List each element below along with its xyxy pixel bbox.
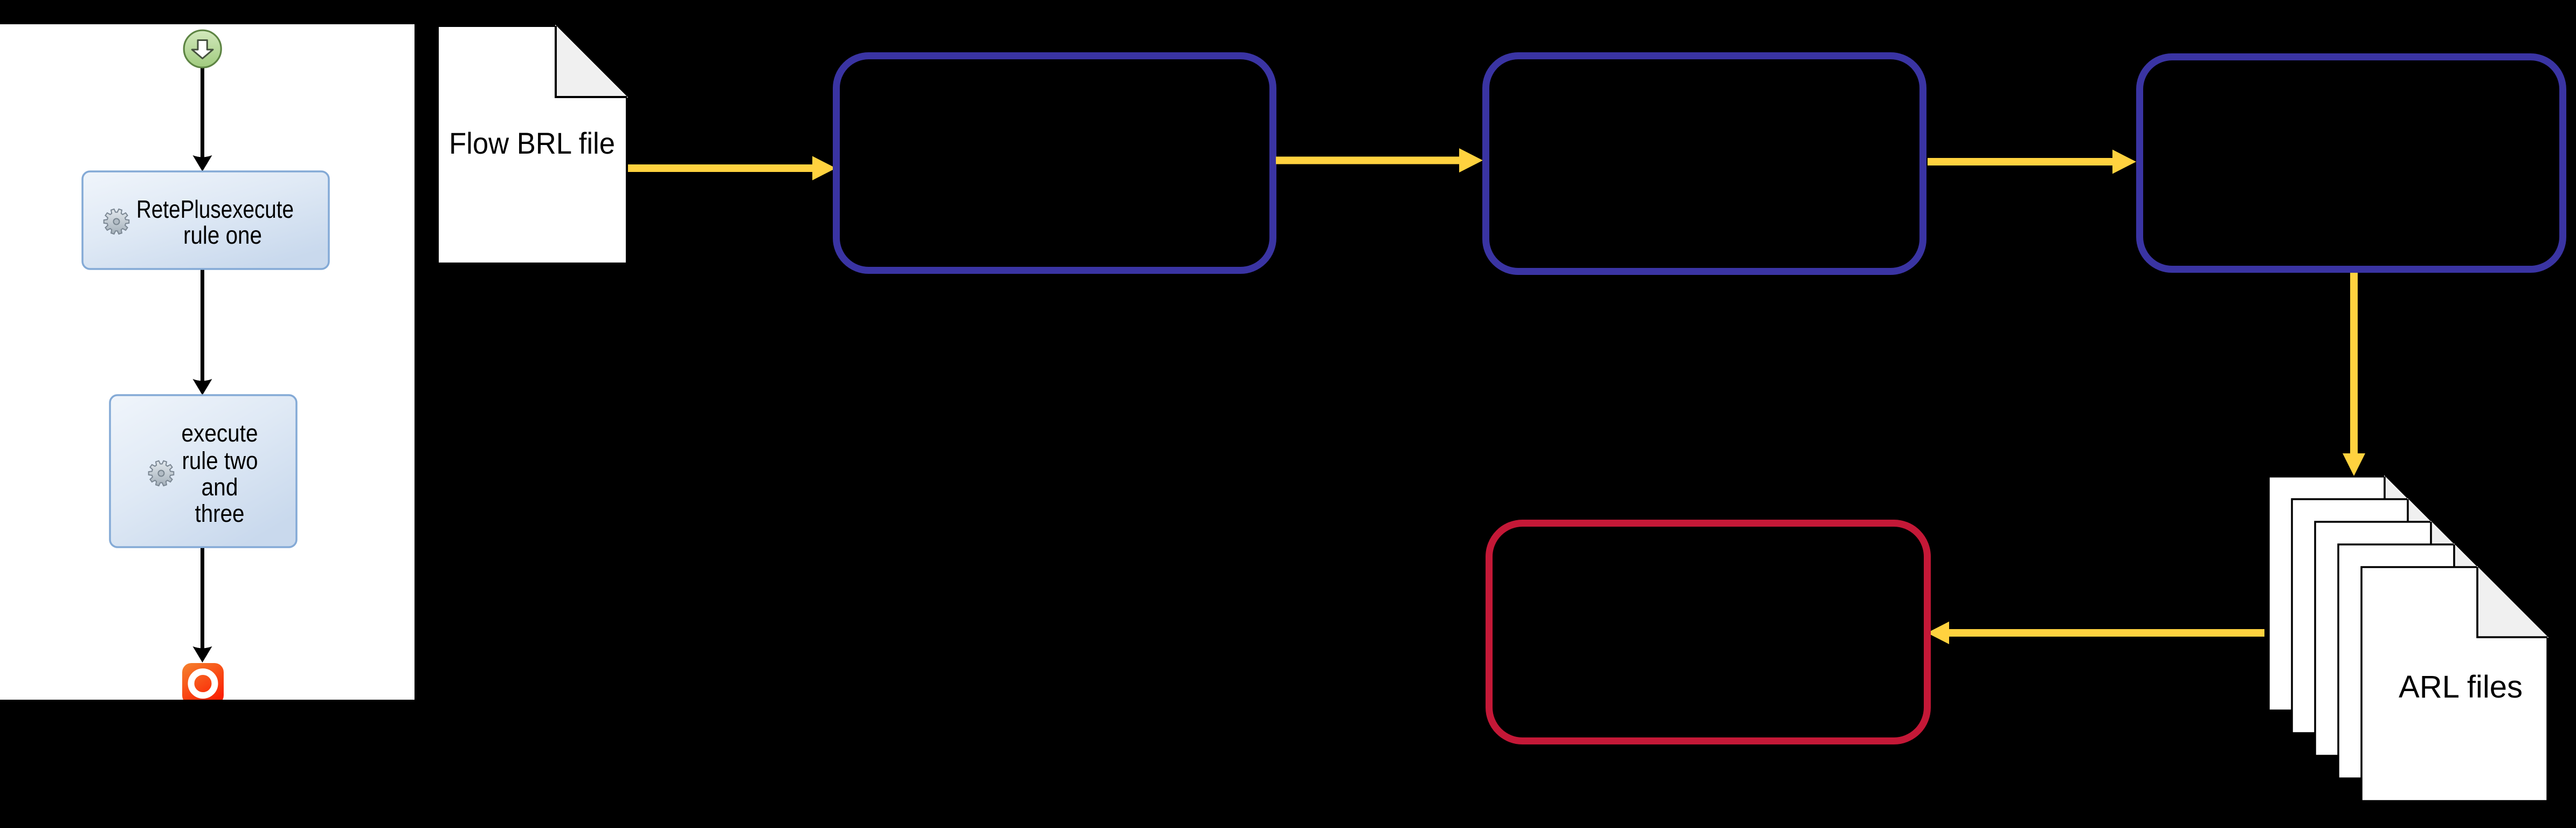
blue box 1 [837, 56, 1273, 271]
task box RetePlusexecute rule one [82, 171, 329, 269]
yellow arrow: box2 to box3 [1928, 150, 2136, 174]
blue box 3 [2140, 57, 2563, 270]
svg-text:execute: execute [182, 419, 258, 447]
wire: start to task1 [201, 67, 204, 157]
svg-text:and: and [202, 473, 238, 501]
ARL page 1 (back) [2269, 477, 2455, 710]
Flow BRL file document [438, 26, 627, 264]
end node (orange rounded square with white ring) [182, 663, 224, 705]
ARL page 3 [2315, 522, 2501, 756]
ARL page 4 [2338, 544, 2524, 778]
wire: task1 to task2 [201, 269, 204, 381]
start node (green circle with down arrow) [184, 30, 221, 67]
svg-text:three: three [195, 500, 245, 527]
svg-text:Flow BRL file: Flow BRL file [449, 126, 615, 160]
yellow arrow: box3 down to ARL files [2343, 273, 2365, 476]
yellow arrow: ARL files to red box [1927, 622, 2264, 644]
svg-text:ARL files: ARL files [2399, 670, 2523, 705]
red box [1489, 523, 1928, 741]
white flowchart panel [0, 24, 415, 700]
yellow arrow: doc to box1 [628, 156, 836, 181]
gear icon task1 [104, 209, 129, 234]
yellow arrow: box1 to box2 [1276, 148, 1483, 172]
ARL files document stack [2269, 477, 2547, 801]
blue box 2 [1486, 56, 1923, 272]
wire: task2 to end [201, 547, 204, 648]
task box execute rule two and three [110, 395, 296, 547]
ARL page 2 [2292, 499, 2478, 733]
ARL page 5 (front) with label [2361, 567, 2547, 801]
svg-text:rule two: rule two [182, 447, 258, 474]
gear icon task2 [149, 461, 174, 486]
svg-text:rule one: rule one [183, 221, 262, 249]
svg-text:RetePlusexecute: RetePlusexecute [136, 195, 294, 223]
